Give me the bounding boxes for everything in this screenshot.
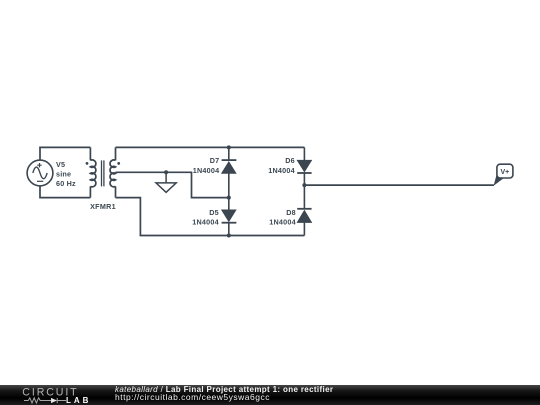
label D7: [193, 156, 220, 175]
svg-text:V+: V+: [501, 169, 510, 176]
footer bar: [0, 385, 540, 405]
CircuitLab logo: [0, 385, 100, 405]
svg-text:1N4004: 1N4004: [193, 166, 220, 175]
svg-text:V5: V5: [56, 160, 65, 169]
ground: [156, 172, 176, 192]
diode D5: [222, 198, 237, 236]
svg-text:XFMR1: XFMR1: [90, 202, 116, 211]
svg-text:1N4004: 1N4004: [192, 218, 219, 227]
label D8: [269, 208, 296, 227]
svg-text:60 Hz: 60 Hz: [56, 179, 76, 188]
node dot: D6/D8 output junction: [302, 183, 306, 187]
label D6: [268, 156, 295, 175]
svg-text:D8: D8: [286, 208, 296, 217]
svg-text:sine: sine: [56, 169, 71, 178]
svg-text:LAB: LAB: [66, 396, 91, 405]
svg-text:D7: D7: [210, 156, 220, 165]
node dot: D7/D5 junction: [227, 196, 231, 200]
net flag V+: [494, 164, 513, 186]
transformer XFMR1: [86, 147, 121, 197]
wire V5 top to XFMR primary top: [40, 147, 90, 160]
wire secondary bottom to bottom rail to D8 column: [116, 198, 305, 236]
svg-text:1N4004: 1N4004: [268, 166, 295, 175]
diode D7: [222, 147, 237, 197]
wire output: D6/D8 junction to V+ flag: [304, 184, 494, 186]
wire V5 bottom to XFMR primary bottom: [40, 186, 90, 198]
voltage source V5: [27, 160, 53, 186]
wire secondary center tap to D7/D5 junction: [116, 172, 229, 197]
svg-text:D6: D6: [285, 156, 295, 165]
svg-text:1N4004: 1N4004: [269, 218, 296, 227]
label V5 value: [56, 160, 76, 188]
node dot: tap / ground: [164, 170, 168, 174]
diode D8: [297, 185, 311, 235]
node dot: D5 / bottom rail: [227, 234, 231, 238]
label D5: [192, 208, 219, 227]
diode D6: [297, 147, 311, 185]
wire top rail: secondary top to D6 column: [116, 146, 305, 148]
svg-text:D5: D5: [209, 208, 219, 217]
footer text: [115, 386, 333, 401]
node dot: top rail / D7: [227, 145, 231, 149]
